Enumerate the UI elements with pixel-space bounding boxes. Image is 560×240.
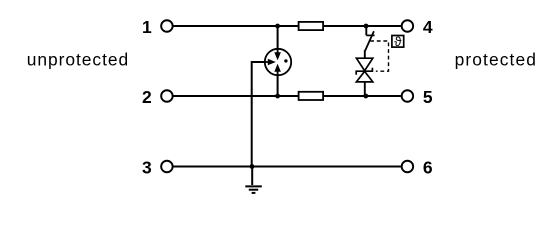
terminal 2 (161, 90, 173, 102)
GDT top arrow (277, 48, 279, 52)
wire row1 to thermal switch (365, 26, 367, 35)
svg-text:3: 3 (142, 158, 152, 178)
wire row 3 (terminal 3 to terminal 6) (173, 166, 401, 168)
junction row1 / suppressor branch (364, 24, 369, 29)
resistor bottom (decoupling) (299, 92, 324, 100)
terminal 3 (161, 161, 173, 173)
wire row 2 (terminal 2 to terminal 5) (173, 95, 401, 97)
junction row2 / suppressor branch (363, 94, 368, 99)
terminal 4 (402, 20, 414, 32)
terminal 1 (161, 20, 173, 32)
wire earth stem (251, 167, 253, 186)
wire GDT left electrode (252, 62, 265, 167)
junction row2 / GDT (275, 94, 280, 99)
suppressor diode bottom half (356, 71, 372, 82)
wire switch to suppressor diode (364, 50, 366, 58)
thermal sensor box (392, 36, 404, 48)
wire row 1 (terminal 1 to terminal 4) (173, 25, 401, 27)
suppressor diode zener bar (356, 68, 372, 75)
wire suppressor diode to row2 (364, 82, 366, 96)
svg-text:1: 1 (142, 17, 152, 37)
svg-text:2: 2 (142, 87, 152, 107)
resistor top (decoupling) (299, 22, 324, 30)
GDT left arrow (264, 61, 268, 63)
svg-text:unprotected: unprotected (27, 49, 129, 69)
gas discharge tube F1 (265, 49, 291, 75)
svg-text:protected: protected (455, 49, 537, 69)
dashed link switch to thermal sensor (370, 41, 388, 71)
junction row1 / GDT (275, 24, 280, 29)
suppressor diode top half (356, 58, 372, 70)
GDT gas-filled dot (284, 59, 287, 62)
terminal 5 (402, 90, 414, 102)
junction row3 / earth lead (250, 164, 255, 169)
svg-text:ϑ: ϑ (394, 34, 402, 49)
svg-text:6: 6 (423, 158, 433, 178)
GDT bottom arrow (277, 71, 279, 75)
thermal disconnect switch contact tick (366, 34, 374, 36)
ground (245, 186, 261, 193)
thermal disconnect switch blade (365, 31, 374, 51)
svg-text:4: 4 (423, 17, 433, 37)
terminal 6 (402, 161, 414, 173)
svg-text:5: 5 (423, 87, 433, 107)
wire GDT vertical (row1 to row2) (277, 26, 279, 96)
